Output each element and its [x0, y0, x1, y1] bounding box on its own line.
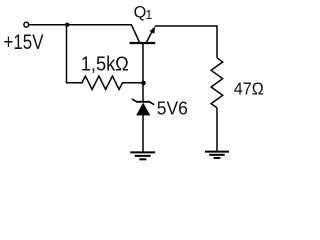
- svg-text:5V6: 5V6: [157, 97, 188, 118]
- junction node B: [141, 81, 146, 86]
- wire load to ground: [216, 108, 218, 152]
- zener diode D1 5V6: [132, 99, 154, 116]
- wire top-right to load: [155, 26, 217, 58]
- junction node A: [65, 23, 69, 27]
- ground right: [205, 152, 229, 158]
- svg-text:47Ω: 47Ω: [234, 79, 264, 99]
- ground left: [130, 152, 155, 159]
- svg-text:1,5kΩ: 1,5kΩ: [81, 53, 129, 75]
- wire left vertical: [66, 25, 68, 83]
- transistor Q1: [130, 25, 156, 43]
- svg-text:1: 1: [145, 8, 152, 22]
- resistor R2 47Ω: [211, 58, 223, 108]
- wire base lead: [142, 44, 144, 102]
- wire zener to ground: [142, 115, 144, 153]
- resistor R1 1,5kΩ: [66, 76, 143, 89]
- svg-text:Q: Q: [134, 3, 147, 21]
- terminal input +15V: [24, 22, 29, 27]
- svg-text:+15V: +15V: [4, 31, 44, 54]
- wire top-left rail: [29, 24, 132, 26]
